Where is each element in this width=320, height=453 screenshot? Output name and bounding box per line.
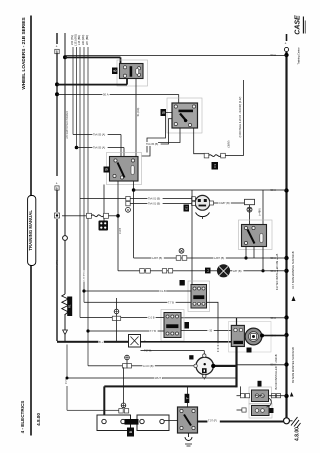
svg-text:C.0 B: C.0 B [119, 228, 122, 234]
svg-text:CL.B: CL.B [160, 289, 166, 293]
svg-text:B2 NON MONTEE SUR 621B: B2 NON MONTEE SUR 621B [291, 347, 295, 383]
svg-text:+: + [285, 42, 287, 46]
svg-text:A.CO (B): A.CO (B) [143, 364, 154, 368]
svg-text:WHEEL LOADERS - 21B SERIES: WHEEL LOADERS - 21B SERIES [21, 17, 26, 89]
svg-text:Tb4.05 (B): Tb4.05 (B) [146, 142, 158, 146]
svg-text:50 A: 50 A [271, 53, 277, 57]
svg-text:C.0 B: C.0 B [148, 316, 155, 320]
svg-text:L50 (YE): L50 (YE) [70, 35, 74, 45]
svg-text:Tb4.01 (B): Tb4.01 (B) [148, 197, 160, 201]
svg-text:+: + [56, 182, 58, 186]
svg-text:L87 (BR): L87 (BR) [85, 35, 89, 46]
svg-text:4.8.00: 4.8.00 [295, 427, 301, 441]
svg-text:LA87 (B): LA87 (B) [152, 256, 162, 260]
svg-text:4.8.00: 4.8.00 [36, 413, 41, 426]
svg-text:(FOR PAGE 4.20.00 - RADIO) (0: (FOR PAGE 4.20.00 - RADIO) (0.12) [239, 96, 242, 137]
svg-text:K17 NON MONTEE SUR 621B: K17 NON MONTEE SUR 621B [291, 251, 295, 288]
svg-text:L30 (RD): L30 (RD) [81, 35, 85, 46]
svg-text:R1: R1 [68, 304, 72, 308]
svg-text:Training Center: Training Center [298, 47, 301, 64]
svg-text:CASE: CASE [295, 15, 302, 35]
svg-text:L15 (BK): L15 (BK) [77, 35, 81, 45]
svg-text:T.7 B: T.7 B [150, 329, 156, 333]
svg-text:TRAINING MANUAL: TRAINING MANUAL [28, 210, 33, 251]
svg-text:CA87 (B): CA87 (B) [219, 201, 230, 205]
svg-text:B: B [128, 430, 133, 433]
svg-text:50 A: 50 A [103, 93, 109, 97]
svg-text:B +: B + [99, 340, 103, 344]
svg-text:- 50: - 50 [208, 329, 213, 332]
svg-text:T.7 B: T.7 B [168, 300, 174, 304]
svg-text:(+48V): (+48V) [259, 208, 262, 215]
svg-text:B: B [56, 187, 58, 191]
svg-text:F1: F1 [213, 164, 217, 168]
svg-text:(3MM): (3MM) [228, 140, 231, 147]
svg-text:LA87 (B): LA87 (B) [214, 256, 224, 260]
svg-text:L/B SWITCHED POWER: L/B SWITCHED POWER [66, 111, 69, 139]
svg-text:B2 NO INSTALLED ON 621B: B2 NO INSTALLED ON 621B [274, 354, 278, 389]
svg-text:Tb4.01 (B): Tb4.01 (B) [148, 202, 160, 206]
svg-text:L131 (RD): L131 (RD) [74, 34, 78, 46]
svg-text:L30 (RD): L30 (RD) [83, 271, 85, 280]
svg-text:Tb4.05 (A): Tb4.05 (A) [93, 146, 105, 150]
svg-text:H: H [206, 269, 210, 271]
svg-text:WHT 1: WHT 1 [155, 376, 164, 380]
svg-text:Tb4.05 (A): Tb4.05 (A) [93, 133, 105, 137]
svg-text:G1: G1 [184, 206, 188, 210]
svg-text:L87 (B): L87 (B) [233, 269, 242, 273]
svg-text:4 - ELECTRICS: 4 - ELECTRICS [20, 401, 25, 434]
svg-text:T.07 (F): T.07 (F) [208, 419, 217, 423]
svg-text:+: + [56, 45, 58, 49]
svg-text:S1 (RD): S1 (RD) [137, 107, 140, 116]
